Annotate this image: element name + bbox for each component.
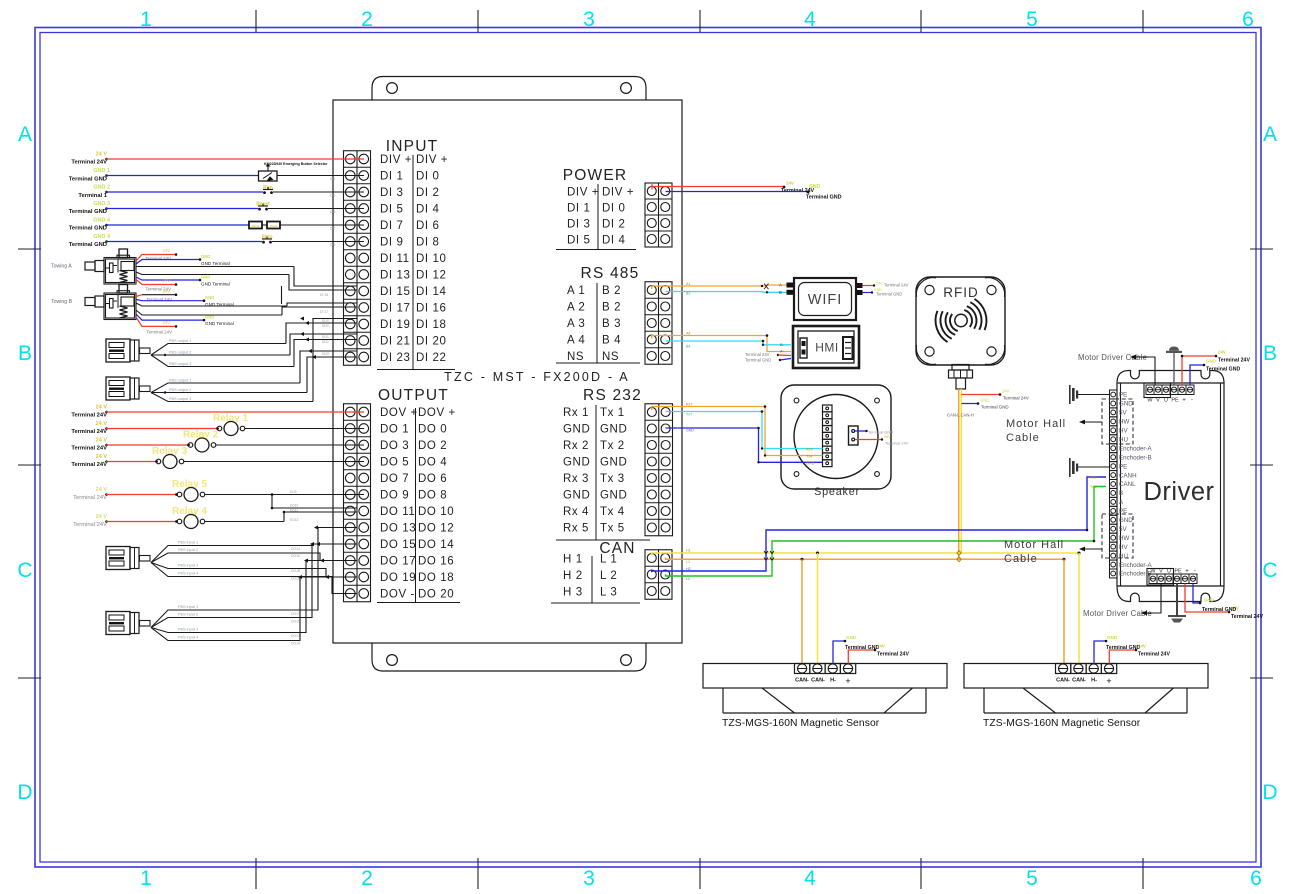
svg-text:DI 0: DI 0 <box>602 203 626 215</box>
svg-text:GND: GND <box>600 457 627 469</box>
wire red to Relay 1 <box>105 427 108 430</box>
svg-text:Terminal 24V: Terminal 24V <box>71 429 107 435</box>
wire blue driver bottom GND <box>1193 584 1200 604</box>
svg-text:Terminal GND: Terminal GND <box>69 242 107 248</box>
RS232 label divider line <box>595 405 597 540</box>
HMI right connector <box>843 337 853 359</box>
svg-text:GND: GND <box>600 490 627 502</box>
INPUT pin labels <box>380 154 448 364</box>
sensor1 wire blue GND stub <box>833 641 845 664</box>
svg-text:Rx 2: Rx 2 <box>563 440 589 452</box>
PBS P1 output wires <box>151 344 286 356</box>
svg-text:Terminal GND: Terminal GND <box>1202 607 1236 613</box>
svg-text:GND: GND <box>201 254 210 259</box>
svg-text:24V: 24V <box>1138 644 1146 649</box>
svg-text:24V: 24V <box>1218 350 1226 355</box>
svg-text:GND Terminal: GND Terminal <box>205 321 234 326</box>
svg-text:Terminal GND: Terminal GND <box>981 405 1009 410</box>
svg-text:DI 6: DI 6 <box>416 220 440 232</box>
svg-text:PBS input 4: PBS input 4 <box>178 636 198 640</box>
OUTPUT label underline <box>377 602 460 604</box>
svg-text:Rx 4: Rx 4 <box>563 506 589 518</box>
svg-text:DO 1: DO 1 <box>380 424 409 436</box>
svg-text:GND Terminal: GND Terminal <box>201 282 230 287</box>
svg-text:Terminal GND: Terminal GND <box>69 209 107 215</box>
svg-text:B 2: B 2 <box>602 302 621 314</box>
svg-text:Rx 1: Rx 1 <box>563 407 589 419</box>
towing B wire red 24V bottom <box>136 317 176 326</box>
chassis ground symbol at driver PE mid <box>1069 458 1071 477</box>
wire red to Relay 5 <box>105 493 108 496</box>
svg-text:HU: HU <box>1119 436 1128 443</box>
svg-text:+: + <box>1182 397 1186 404</box>
wire blue CAN H2 to driver CANH <box>652 477 1106 572</box>
svg-text:DI 3: DI 3 <box>380 187 404 199</box>
svg-text:DI 4: DI 4 <box>416 204 440 216</box>
svg-text:GND: GND <box>809 184 821 190</box>
PBS connector P3 <box>106 547 130 570</box>
INPUT label divider line <box>412 155 414 370</box>
wire black Relay2 to DO3 <box>216 444 364 446</box>
svg-text:DO19: DO19 <box>291 642 300 646</box>
wire black emergency switch to DI1 <box>277 175 364 177</box>
wire towing A signal2 drop to DI15 row <box>289 275 357 291</box>
svg-text:DO14: DO14 <box>291 547 300 551</box>
mounting hole bottom-left <box>387 655 398 666</box>
svg-text:DI 17: DI 17 <box>320 310 328 314</box>
CAN label divider line <box>591 556 593 603</box>
terminal strip INPUT connector J1 (13x2) <box>344 151 371 366</box>
wire cyan RS485 B4 to HMI B- <box>666 341 792 345</box>
svg-text:Terminal 24V: Terminal 24V <box>1218 358 1250 364</box>
wires PBS P1/P2 risers to INPUT rows <box>286 323 357 344</box>
svg-text:DO15: DO15 <box>291 620 300 624</box>
wire yellow CAN H1 bus <box>652 553 1079 556</box>
svg-text:24 V: 24 V <box>96 438 108 444</box>
svg-text:Terminal 24V: Terminal 24V <box>71 462 107 468</box>
svg-text:GND: GND <box>563 490 590 502</box>
svg-text:DO 14: DO 14 <box>418 539 454 551</box>
svg-text:GND: GND <box>1206 359 1216 364</box>
wire blue RS232 GND to speaker <box>666 428 823 462</box>
svg-text:PBS output 3: PBS output 3 <box>169 397 191 401</box>
svg-text:DO 10: DO 10 <box>418 506 454 518</box>
RFID cable orange/yellow pair down to CAN bus <box>958 389 960 559</box>
svg-text:HV: HV <box>1119 428 1128 435</box>
svg-text:GND 2: GND 2 <box>93 185 110 191</box>
svg-text:L 3: L 3 <box>600 587 617 599</box>
wire red 24V to DOV+ <box>105 411 108 414</box>
svg-text:H-: H- <box>1091 678 1097 684</box>
svg-text:Enchoder-B: Enchoder-B <box>1119 454 1152 461</box>
svg-text:L1: L1 <box>686 560 690 564</box>
svg-text:CANL: CANL <box>1119 481 1136 488</box>
svg-text:24 V: 24 V <box>96 454 108 460</box>
POWER label divider line <box>597 184 599 250</box>
wire black Relay5 to DO9 <box>205 494 364 496</box>
svg-text:DI 18: DI 18 <box>416 319 447 331</box>
svg-text:DI 1: DI 1 <box>567 203 591 215</box>
svg-text:PBS input 4: PBS input 4 <box>178 572 198 576</box>
mounting hole top-left <box>387 83 398 94</box>
svg-text:RxM: RxM <box>1090 476 1097 480</box>
wire orange drop to sensor1 CAN- <box>801 559 803 663</box>
svg-text:PBS input 1: PBS input 1 <box>178 605 198 609</box>
svg-text:GND: GND <box>1119 517 1133 524</box>
svg-text:24V: 24V <box>877 644 885 649</box>
svg-text:Terminal 24V: Terminal 24V <box>71 446 107 452</box>
RS485 label divider line <box>596 283 598 363</box>
svg-text:5: 5 <box>1026 867 1038 890</box>
svg-text:DO 20: DO 20 <box>418 589 454 601</box>
svg-text:Motor Driver Cable: Motor Driver Cable <box>1083 609 1152 618</box>
svg-text:24V: 24V <box>163 248 171 253</box>
PBS connector P1 <box>106 339 130 362</box>
svg-text:GND 4: GND 4 <box>93 218 111 224</box>
svg-text:DI9: DI9 <box>330 243 335 247</box>
svg-text:1: 1 <box>140 8 152 31</box>
svg-text:L2: L2 <box>686 577 690 581</box>
svg-text:24V: 24V <box>884 435 891 439</box>
crossover marks on RS485 wires <box>764 284 769 290</box>
magnetic sensor MS2 TZS-MGS-160N <box>964 664 1208 689</box>
svg-text:4: 4 <box>804 8 816 31</box>
wire blue to Reset button <box>105 207 108 210</box>
PBS P2 output wires <box>151 383 300 393</box>
svg-text:Diode: Diode <box>252 224 260 228</box>
CAN label underline <box>551 602 640 604</box>
svg-text:DO12: DO12 <box>290 518 299 522</box>
svg-text:DO9: DO9 <box>290 490 297 494</box>
diode block D2 <box>267 222 280 229</box>
svg-text:5V: 5V <box>1119 526 1127 533</box>
sensor1 wire red 24V stub <box>848 650 875 664</box>
svg-text:Terminal GND: Terminal GND <box>876 292 902 297</box>
svg-text:Diode: Diode <box>270 224 278 228</box>
wire blue speaker GND stub <box>855 430 867 432</box>
svg-text:GND 4: GND 4 <box>93 234 111 240</box>
svg-text:DO 5: DO 5 <box>380 457 409 469</box>
terminal strip RS232 connector J5 (8x2) <box>645 404 673 536</box>
svg-text:DI 5: DI 5 <box>380 204 404 216</box>
svg-text:V: V <box>1156 398 1160 404</box>
svg-text:+: + <box>1185 568 1189 575</box>
svg-text:TZC - MST - FX200D - A: TZC - MST - FX200D - A <box>444 370 630 384</box>
svg-text:NS: NS <box>567 351 584 363</box>
svg-text:DI 19: DI 19 <box>380 319 411 331</box>
svg-text:DI5: DI5 <box>330 210 335 214</box>
svg-text:6: 6 <box>1242 8 1254 31</box>
svg-text:DI20: DI20 <box>322 324 329 328</box>
svg-text:B: B <box>1263 342 1277 365</box>
wire green CAN L2 to driver CANL <box>666 487 1107 577</box>
svg-text:Motor Hall: Motor Hall <box>1006 418 1066 430</box>
mounting hole top-right <box>621 83 632 94</box>
driver top terminal strip W V U PE + - <box>1146 385 1194 395</box>
svg-text:DI1: DI1 <box>330 177 335 181</box>
svg-text:Rx 3: Rx 3 <box>563 473 589 485</box>
svg-text:B 4: B 4 <box>602 335 621 347</box>
svg-text:C: C <box>1262 559 1277 582</box>
wire towing B signal1 to DI17 row <box>287 303 357 306</box>
towing A wire red 24V bottom <box>136 280 176 285</box>
driver dashed box upper motor-hall group <box>1102 399 1133 444</box>
svg-text:DO 11: DO 11 <box>380 506 415 518</box>
svg-text:-: - <box>1191 397 1193 404</box>
emergency stop selector switch S1 <box>259 171 278 181</box>
RFID module U4 body <box>916 277 1005 365</box>
wire red to Relay 4 <box>105 520 108 523</box>
wire yellow drop to sensor1 CAN- <box>817 553 819 664</box>
svg-text:A 2: A 2 <box>567 302 585 314</box>
svg-text:2: 2 <box>361 867 373 890</box>
svg-text:Terminal GND: Terminal GND <box>69 226 107 232</box>
svg-text:D: D <box>1262 781 1277 804</box>
towing B wire black signal 2 <box>136 310 282 315</box>
svg-text:TxM: TxM <box>1090 485 1097 489</box>
svg-text:PE: PE <box>1171 398 1179 404</box>
towing A wire blue GND top <box>136 260 200 265</box>
svg-text:Tx 3: Tx 3 <box>600 473 625 485</box>
svg-text:DO 6: DO 6 <box>418 473 447 485</box>
svg-text:Terminal GND: Terminal GND <box>1206 367 1240 373</box>
svg-text:Terminal 24V: Terminal 24V <box>1003 396 1029 401</box>
svg-text:DO13: DO13 <box>291 612 300 616</box>
wire link between diode blocks <box>262 224 267 226</box>
svg-text:DI23: DI23 <box>322 352 329 356</box>
svg-text:HV: HV <box>1119 544 1128 551</box>
wire red 24V to INPUT DIV+ <box>105 158 108 161</box>
svg-text:DI 8: DI 8 <box>416 237 440 249</box>
svg-text:24V: 24V <box>786 181 794 186</box>
svg-text:5: 5 <box>1026 8 1038 31</box>
svg-text:GND: GND <box>563 424 590 436</box>
svg-text:B-: B- <box>780 342 785 347</box>
svg-text:Speaker: Speaker <box>814 486 860 498</box>
svg-text:Relay 5: Relay 5 <box>172 479 207 490</box>
svg-text:DIV +: DIV + <box>416 154 448 166</box>
svg-text:H 1: H 1 <box>563 554 583 566</box>
svg-text:DI 0: DI 0 <box>416 171 440 183</box>
svg-text:HMI: HMI <box>815 341 839 355</box>
PBS connector P4 <box>106 612 130 635</box>
svg-text:GND Terminal: GND Terminal <box>201 261 230 266</box>
svg-text:GND: GND <box>1119 401 1133 408</box>
svg-text:3: 3 <box>583 8 595 31</box>
svg-text:24V: 24V <box>163 278 171 283</box>
svg-text:DI 13: DI 13 <box>380 270 411 282</box>
svg-text:TxT: TxT <box>686 413 693 417</box>
svg-text:GND: GND <box>205 295 214 300</box>
wire black Reset to DI5 <box>268 208 364 210</box>
terminal strip RS485 connector J4 (5x2) <box>645 282 672 365</box>
wire black Relay3 to DO5 <box>184 461 364 463</box>
wire orange RS485 A1 to WIFI A <box>652 285 787 289</box>
svg-text:DO10: DO10 <box>290 504 299 508</box>
crossover marks at blue/green risers <box>764 551 774 560</box>
svg-text:Rx4: Rx4 <box>806 448 813 452</box>
svg-text:Terminal GND: Terminal GND <box>806 195 842 201</box>
svg-text:D: D <box>17 781 32 804</box>
speaker SP1 body <box>781 385 891 489</box>
wire black relay5 branch to DO11 row <box>271 495 273 509</box>
svg-text:Terminal 24V: Terminal 24V <box>73 495 107 501</box>
RS485 pin labels <box>567 285 621 363</box>
sensor2 wire red 24V stub <box>1109 650 1136 664</box>
svg-text:HW: HW <box>1119 535 1129 542</box>
svg-text:DO 13: DO 13 <box>380 523 416 535</box>
svg-text:OUTPUT: OUTPUT <box>378 387 449 404</box>
terminal strip CAN connector J6 (3x2) <box>645 550 672 600</box>
svg-text:Tx 4: Tx 4 <box>600 506 625 518</box>
svg-text:Terminal 24V: Terminal 24V <box>71 160 107 166</box>
svg-text:24 V: 24 V <box>96 487 108 493</box>
RS485 label underline <box>556 362 640 364</box>
svg-text:GND: GND <box>980 398 989 403</box>
svg-text:Terminal 1: Terminal 1 <box>78 193 107 199</box>
mounting hole bottom-right <box>621 655 632 666</box>
svg-text:CAN-L CAN-H: CAN-L CAN-H <box>947 413 974 418</box>
svg-text:INPUT: INPUT <box>386 138 439 155</box>
svg-text:DIV +: DIV + <box>567 187 599 199</box>
svg-text:GND 1: GND 1 <box>93 168 110 174</box>
svg-text:TZS-MGS-160N Magnetic Sensor: TZS-MGS-160N Magnetic Sensor <box>722 718 880 729</box>
svg-text:Relay 4: Relay 4 <box>172 506 207 517</box>
svg-text:24V: 24V <box>163 320 171 325</box>
PBS P3 input wires <box>151 544 357 563</box>
svg-text:Cable: Cable <box>1004 553 1038 565</box>
svg-text:PBS output 2: PBS output 2 <box>169 351 191 355</box>
wire blue driver top GND <box>1190 365 1204 385</box>
svg-text:DO 16: DO 16 <box>418 556 454 568</box>
towing B wire black top with red stub <box>136 295 142 297</box>
svg-text:PBS input 3: PBS input 3 <box>178 628 198 632</box>
svg-text:GND: GND <box>846 635 857 640</box>
svg-text:DI7: DI7 <box>330 227 335 231</box>
controller U1 TZC-MST-FX200D-A outline <box>333 100 682 643</box>
svg-text:Terminal GND: Terminal GND <box>745 358 771 363</box>
junction vertical link towing rows <box>281 286 283 304</box>
svg-text:W: W <box>1150 569 1156 575</box>
svg-text:DI 22: DI 22 <box>416 352 447 364</box>
towing switch A <box>104 258 136 285</box>
towing A wire black signal 1 <box>136 266 294 268</box>
towing switch B <box>104 293 136 320</box>
speaker 2-pin connector <box>849 426 859 445</box>
wire cyan RS485 B2 to WIFI B <box>666 291 788 294</box>
svg-text:Terminal GND: Terminal GND <box>69 177 107 183</box>
wire orange RS232 Rx1 to speaker <box>652 407 823 456</box>
svg-text:POWER: POWER <box>563 167 628 184</box>
svg-text:5V: 5V <box>1119 410 1127 417</box>
svg-text:24 V: 24 V <box>96 421 108 427</box>
svg-text:24 V: 24 V <box>96 152 108 158</box>
wire black diodes to DI7 <box>280 224 364 226</box>
wire blue WIFI GND <box>863 292 872 294</box>
svg-text:RS 485: RS 485 <box>581 265 640 282</box>
svg-text:Enchoder-A: Enchoder-A <box>1119 445 1153 452</box>
svg-text:GND: GND <box>600 424 627 436</box>
wire blue POWER GND out <box>666 191 809 193</box>
svg-text:+: + <box>845 676 850 686</box>
PBS connector P2 <box>106 377 130 400</box>
driver left pin header <box>1110 390 1153 578</box>
svg-text:PBS input 2: PBS input 2 <box>178 613 198 617</box>
svg-text:DI 2: DI 2 <box>416 187 440 199</box>
svg-text:PE: PE <box>1119 463 1127 470</box>
terminal strip OUTPUT connector J2 (12x2) <box>344 404 371 602</box>
svg-text:DO 3: DO 3 <box>380 440 409 452</box>
svg-text:DI 15: DI 15 <box>320 293 328 297</box>
svg-text:H 3: H 3 <box>563 587 583 599</box>
svg-text:DO16: DO16 <box>291 554 300 558</box>
svg-text:24V: 24V <box>876 282 883 286</box>
svg-text:A 1: A 1 <box>567 285 585 297</box>
svg-text:DO 9: DO 9 <box>380 490 409 502</box>
svg-text:PBS output 2: PBS output 2 <box>169 388 191 392</box>
wire orange CAN L1 bus <box>666 558 1065 560</box>
svg-text:KM22D940 Emerging Button Selec: KM22D940 Emerging Button Selector <box>264 162 328 166</box>
svg-text:DIV +: DIV + <box>602 187 634 199</box>
svg-text:B2: B2 <box>686 292 690 296</box>
speaker mounting holes <box>794 398 799 403</box>
svg-text:DI22: DI22 <box>322 340 329 344</box>
svg-text:TZS-MGS-160N Magnetic Sensor: TZS-MGS-160N Magnetic Sensor <box>983 718 1141 729</box>
wire red to Relay 2 <box>105 444 108 447</box>
svg-text:DI3: DI3 <box>330 194 335 198</box>
wire black Stop to DI9 <box>272 241 364 243</box>
wire towing A signal1 drop to DI15 row <box>294 267 357 287</box>
towing B wire blue GND bottom <box>136 314 204 320</box>
svg-text:Motor Hall: Motor Hall <box>1004 539 1064 551</box>
chassis ground symbol at driver PE top <box>1069 385 1071 404</box>
wire blue to Stop button <box>105 240 108 243</box>
svg-text:Terminal 24V: Terminal 24V <box>71 413 107 419</box>
svg-text:B 3: B 3 <box>602 318 621 330</box>
WIFI module left pins <box>787 283 794 288</box>
towing B wire blue GND top <box>136 300 204 301</box>
wire red RFID 24V <box>962 394 1001 396</box>
svg-text:Terminal 24V: Terminal 24V <box>1138 652 1170 658</box>
wire red driver bottom 24V <box>1185 584 1229 613</box>
svg-text:Towing B: Towing B <box>51 299 73 305</box>
svg-text:2: 2 <box>361 8 373 31</box>
svg-text:Terminal 24V: Terminal 24V <box>73 522 107 528</box>
svg-text:DI 9: DI 9 <box>380 237 404 249</box>
svg-text:Rx 5: Rx 5 <box>563 523 589 535</box>
magnetic sensor MS1 TZS-MGS-160N <box>703 664 947 689</box>
svg-text:PBS input 3: PBS input 3 <box>178 564 198 568</box>
svg-text:GND: GND <box>686 429 694 433</box>
svg-text:Terminal 24V: Terminal 24V <box>146 330 172 335</box>
wire orange RS485 A4 to HMI A- <box>652 336 791 352</box>
svg-text:DIV +: DIV + <box>380 154 412 166</box>
svg-text:L 1: L 1 <box>600 554 617 566</box>
svg-text:DO 8: DO 8 <box>418 490 447 502</box>
svg-text:DO18: DO18 <box>291 569 300 573</box>
wire orange drop to sensor2 CAN- <box>1063 559 1065 663</box>
svg-text:Cable: Cable <box>1006 432 1040 444</box>
wire red driver top 24V <box>1182 356 1216 385</box>
svg-text:24V: 24V <box>1002 389 1010 394</box>
svg-text:GND: GND <box>1107 635 1118 640</box>
svg-text:A: A <box>1263 123 1277 146</box>
svg-text:+: + <box>1106 676 1111 686</box>
driver dashed box lower motor-hall group <box>1102 514 1133 558</box>
svg-text:1: 1 <box>140 867 152 890</box>
svg-text:PBS output 1: PBS output 1 <box>169 339 191 343</box>
OUTPUT label divider line <box>415 408 417 603</box>
